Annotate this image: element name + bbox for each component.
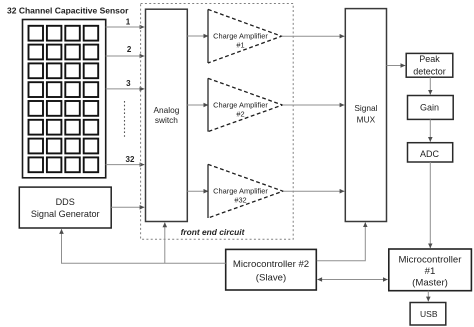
svg-text:Charge Amplifier: Charge Amplifier (213, 100, 268, 109)
svg-text:Peak: Peak (419, 54, 440, 64)
analog switch U1 (146, 9, 188, 221)
svg-text:detector: detector (413, 66, 446, 76)
svg-text:(Slave): (Slave) (256, 273, 286, 284)
sensor electrode grid (32 pads) (29, 26, 99, 172)
wire microcontroller #2 to DDS (62, 229, 226, 263)
svg-text:Analog: Analog (153, 105, 179, 115)
svg-text:Gain: Gain (420, 103, 439, 113)
svg-text:DDS: DDS (56, 197, 75, 207)
svg-text:USB: USB (420, 309, 438, 319)
wire amp #32 output to MUX (283, 190, 344, 192)
wire DDS to analog switch (111, 206, 144, 208)
ADC U5 (408, 143, 453, 162)
sensor array outer frame (23, 20, 106, 178)
svg-text:#32: #32 (234, 196, 246, 205)
svg-text:Signal: Signal (354, 103, 377, 113)
svg-text:switch: switch (155, 115, 178, 125)
wire branch to analog switch control (164, 223, 166, 264)
wire microcontroller #1 to USB (427, 291, 429, 302)
USB port (410, 303, 446, 326)
signal MUX U2 (345, 9, 386, 222)
svg-text:Charge Amplifier: Charge Amplifier (213, 32, 268, 41)
gain block U4 (408, 96, 454, 120)
wire analog switch to amp #32 (187, 190, 208, 192)
charge amplifier #1 (208, 9, 282, 63)
wire gain to ADC (429, 119, 431, 141)
svg-text:2: 2 (127, 45, 132, 54)
svg-text:#2: #2 (236, 109, 244, 118)
wire channel 2 (106, 55, 145, 57)
svg-text:32 Channel Capacitive Sensor: 32 Channel Capacitive Sensor (7, 6, 129, 16)
wire microcontroller #2 to MUX select (317, 222, 366, 260)
svg-text:#1: #1 (425, 266, 436, 277)
svg-text:front end circuit: front end circuit (181, 227, 246, 237)
wire amp #1 output to MUX (282, 35, 345, 37)
svg-text:Signal Generator: Signal Generator (31, 209, 100, 219)
front end circuit dashed boundary (141, 4, 294, 240)
svg-text:3: 3 (126, 79, 131, 88)
svg-text:#1: #1 (236, 41, 244, 50)
ellipsis dots between channel 3 and 32 (124, 101, 126, 139)
svg-text:ADC: ADC (420, 149, 440, 159)
svg-text:Microcontroller #2: Microcontroller #2 (233, 259, 309, 270)
peak detector U3 (406, 53, 453, 77)
svg-text:Charge Amplifier: Charge Amplifier (213, 187, 268, 196)
wire channel 32 (106, 164, 145, 166)
wire MUX to peak detector (387, 65, 406, 67)
microcontroller #1 (Master) (389, 249, 472, 291)
wire channel 3 (106, 88, 145, 90)
wire amp #2 output to MUX (282, 104, 344, 106)
svg-text:(Master): (Master) (412, 278, 448, 289)
DDS signal generator U6 (19, 187, 111, 228)
svg-text:MUX: MUX (357, 114, 376, 124)
microcontroller #2 (Slave) (226, 249, 317, 290)
wire ADC to microcontroller #1 (429, 162, 431, 248)
svg-text:32: 32 (126, 155, 135, 164)
wire analog switch to amp #2 (187, 104, 208, 106)
wire analog switch to amp #1 (187, 35, 208, 37)
charge amplifier #2 (208, 78, 282, 131)
wire channel 1 (106, 26, 145, 28)
charge amplifier #32 (208, 164, 283, 218)
svg-text:1: 1 (126, 18, 131, 27)
bidirectional wire between microcontrollers (318, 279, 388, 281)
svg-text:Microcontroller: Microcontroller (399, 254, 463, 265)
wire peak detector to gain (429, 77, 431, 94)
